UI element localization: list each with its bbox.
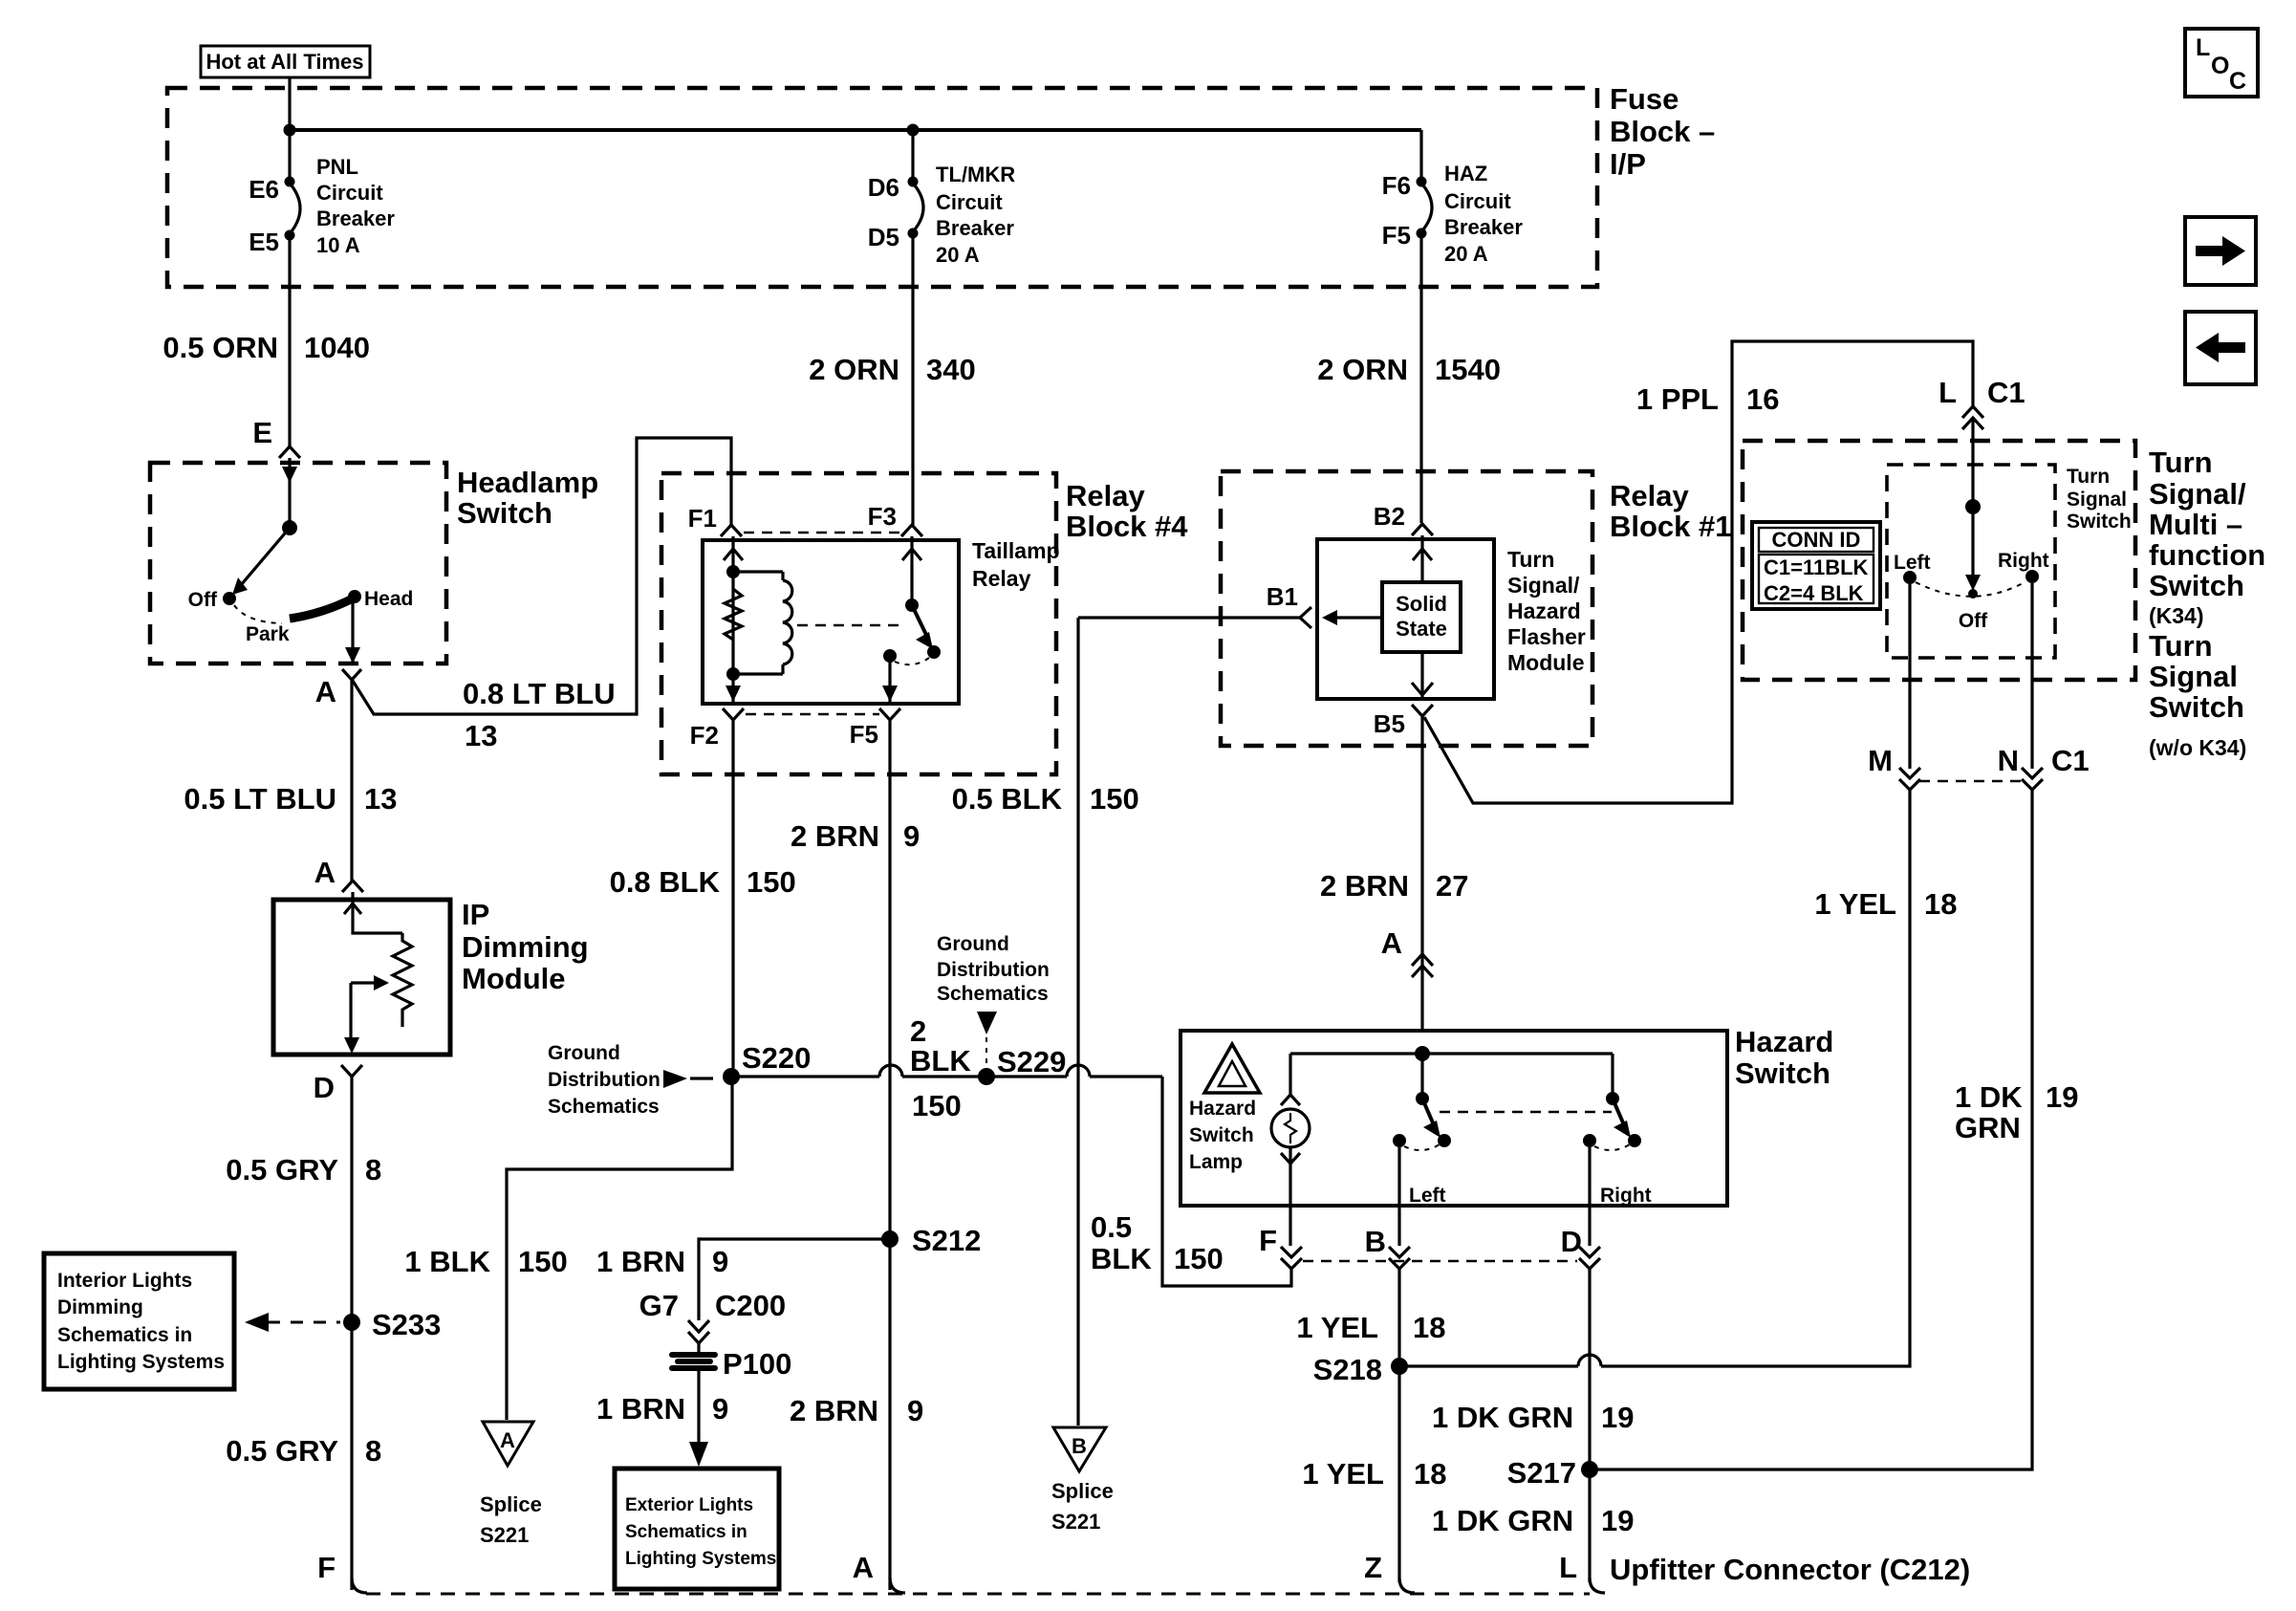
svg-text:(w/o K34): (w/o K34) bbox=[2149, 735, 2246, 760]
svg-text:A: A bbox=[314, 856, 336, 889]
svg-text:Multi –: Multi – bbox=[2149, 508, 2242, 541]
svg-text:9: 9 bbox=[907, 1394, 923, 1427]
svg-text:B1: B1 bbox=[1267, 582, 1298, 611]
svg-text:Turn: Turn bbox=[2149, 629, 2213, 663]
svg-text:B5: B5 bbox=[1374, 709, 1405, 738]
svg-text:PNL: PNL bbox=[316, 155, 358, 179]
svg-text:Flasher: Flasher bbox=[1507, 624, 1586, 649]
svg-text:Schematics in: Schematics in bbox=[625, 1522, 747, 1542]
svg-text:Headlamp: Headlamp bbox=[457, 466, 598, 499]
svg-text:Block –: Block – bbox=[1610, 115, 1715, 148]
svg-text:Taillamp: Taillamp bbox=[972, 538, 1060, 563]
svg-text:Head: Head bbox=[364, 588, 413, 610]
svg-text:0.5: 0.5 bbox=[1091, 1210, 1132, 1244]
svg-text:Signal/: Signal/ bbox=[2149, 477, 2246, 511]
svg-text:F2: F2 bbox=[690, 721, 719, 750]
svg-text:Hot at All Times: Hot at All Times bbox=[206, 50, 363, 74]
svg-text:G7: G7 bbox=[639, 1289, 679, 1322]
svg-text:Distribution: Distribution bbox=[937, 959, 1050, 981]
svg-text:1 YEL: 1 YEL bbox=[1302, 1457, 1384, 1491]
svg-text:C1: C1 bbox=[1987, 376, 2025, 409]
svg-text:Lamp: Lamp bbox=[1189, 1151, 1243, 1173]
svg-text:Fuse: Fuse bbox=[1610, 82, 1679, 116]
svg-text:1 YEL: 1 YEL bbox=[1296, 1311, 1378, 1344]
svg-text:Hazard: Hazard bbox=[1735, 1025, 1833, 1058]
svg-text:TL/MKR: TL/MKR bbox=[936, 163, 1015, 186]
svg-text:F5: F5 bbox=[850, 720, 878, 749]
svg-text:I/P: I/P bbox=[1610, 147, 1646, 181]
svg-text:E: E bbox=[252, 416, 272, 449]
svg-text:Lighting Systems: Lighting Systems bbox=[625, 1549, 776, 1569]
svg-text:Breaker: Breaker bbox=[936, 216, 1014, 240]
svg-text:State: State bbox=[1396, 617, 1447, 641]
svg-text:1 YEL: 1 YEL bbox=[1814, 887, 1896, 921]
svg-text:Distribution: Distribution bbox=[548, 1069, 661, 1091]
svg-text:S233: S233 bbox=[372, 1308, 441, 1341]
svg-text:Circuit: Circuit bbox=[1444, 189, 1511, 213]
svg-text:Switch: Switch bbox=[2067, 511, 2132, 533]
svg-text:16: 16 bbox=[1746, 382, 1779, 416]
svg-text:Signal: Signal bbox=[2149, 660, 2238, 693]
svg-text:1 BRN: 1 BRN bbox=[596, 1245, 685, 1278]
svg-text:20 A: 20 A bbox=[1444, 242, 1488, 266]
svg-text:F: F bbox=[1259, 1224, 1277, 1257]
svg-text:1 PPL: 1 PPL bbox=[1636, 382, 1719, 416]
svg-text:D5: D5 bbox=[868, 223, 899, 251]
svg-text:Exterior Lights: Exterior Lights bbox=[625, 1495, 753, 1515]
svg-text:Z: Z bbox=[1364, 1551, 1382, 1584]
svg-text:F5: F5 bbox=[1382, 221, 1411, 250]
svg-text:8: 8 bbox=[365, 1153, 381, 1186]
svg-text:F6: F6 bbox=[1382, 171, 1411, 200]
svg-text:0.5 GRY: 0.5 GRY bbox=[226, 1434, 338, 1468]
svg-text:Interior Lights: Interior Lights bbox=[57, 1270, 192, 1292]
svg-text:Signal: Signal bbox=[2067, 489, 2127, 511]
svg-text:Block #4: Block #4 bbox=[1066, 510, 1188, 543]
svg-text:1 DK GRN: 1 DK GRN bbox=[1432, 1504, 1573, 1537]
svg-text:Turn: Turn bbox=[1507, 547, 1554, 572]
svg-text:Breaker: Breaker bbox=[1444, 215, 1523, 239]
svg-text:IP: IP bbox=[462, 898, 489, 931]
svg-text:27: 27 bbox=[1436, 869, 1468, 903]
svg-text:BLK: BLK bbox=[910, 1044, 971, 1078]
svg-text:Circuit: Circuit bbox=[936, 190, 1003, 214]
svg-text:function: function bbox=[2149, 538, 2265, 572]
svg-text:150: 150 bbox=[518, 1245, 568, 1278]
svg-text:D: D bbox=[314, 1071, 335, 1104]
svg-text:Hazard: Hazard bbox=[1189, 1098, 1256, 1120]
svg-text:F3: F3 bbox=[868, 502, 897, 531]
svg-text:L: L bbox=[1559, 1551, 1577, 1584]
svg-text:E6: E6 bbox=[249, 175, 279, 204]
svg-text:2: 2 bbox=[910, 1014, 926, 1048]
svg-text:D6: D6 bbox=[868, 173, 899, 202]
svg-text:Circuit: Circuit bbox=[316, 181, 383, 205]
svg-text:2 BRN: 2 BRN bbox=[1320, 869, 1409, 903]
svg-text:150: 150 bbox=[1174, 1242, 1224, 1275]
svg-text:C1: C1 bbox=[2051, 744, 2090, 777]
svg-text:M: M bbox=[1868, 744, 1893, 777]
svg-text:S217: S217 bbox=[1507, 1456, 1576, 1490]
svg-text:S212: S212 bbox=[912, 1224, 981, 1257]
svg-text:150: 150 bbox=[747, 865, 796, 899]
svg-text:C200: C200 bbox=[715, 1289, 786, 1322]
svg-text:1 DK: 1 DK bbox=[1955, 1080, 2023, 1114]
svg-text:F1: F1 bbox=[688, 504, 717, 533]
svg-text:S220: S220 bbox=[742, 1041, 811, 1075]
svg-text:A: A bbox=[500, 1428, 515, 1452]
svg-text:Relay: Relay bbox=[1066, 479, 1145, 512]
svg-text:19: 19 bbox=[2046, 1080, 2078, 1114]
svg-text:Upfitter Connector (C212): Upfitter Connector (C212) bbox=[1610, 1553, 1970, 1586]
svg-text:19: 19 bbox=[1601, 1504, 1634, 1537]
svg-text:A: A bbox=[1381, 926, 1402, 960]
svg-text:CONN ID: CONN ID bbox=[1772, 528, 1861, 552]
svg-text:B: B bbox=[1072, 1434, 1087, 1458]
svg-text:Hazard: Hazard bbox=[1507, 599, 1581, 623]
svg-text:Signal/: Signal/ bbox=[1507, 573, 1580, 598]
svg-text:2 BRN: 2 BRN bbox=[790, 1394, 878, 1427]
svg-text:Module: Module bbox=[1507, 650, 1585, 675]
svg-text:L: L bbox=[1939, 376, 1957, 409]
svg-text:C2=4 BLK: C2=4 BLK bbox=[1764, 581, 1864, 605]
svg-text:Right: Right bbox=[1600, 1185, 1652, 1207]
svg-text:1 BLK: 1 BLK bbox=[404, 1245, 490, 1278]
svg-text:13: 13 bbox=[364, 782, 397, 816]
svg-text:E5: E5 bbox=[249, 228, 279, 256]
svg-text:0.8 BLK: 0.8 BLK bbox=[610, 865, 721, 899]
svg-text:A: A bbox=[315, 675, 336, 708]
svg-text:Left: Left bbox=[1409, 1185, 1446, 1207]
svg-text:L: L bbox=[2196, 34, 2210, 61]
svg-text:19: 19 bbox=[1601, 1401, 1634, 1434]
svg-text:1040: 1040 bbox=[304, 331, 370, 364]
svg-text:Block #1: Block #1 bbox=[1610, 510, 1732, 543]
svg-text:1540: 1540 bbox=[1435, 353, 1501, 386]
svg-text:Splice: Splice bbox=[480, 1492, 542, 1516]
svg-text:2 BRN: 2 BRN bbox=[791, 819, 879, 853]
svg-text:Turn: Turn bbox=[2149, 446, 2213, 479]
svg-text:Turn: Turn bbox=[2067, 466, 2110, 488]
svg-text:2 ORN: 2 ORN bbox=[1317, 353, 1408, 386]
svg-text:Off: Off bbox=[1959, 610, 1988, 632]
svg-text:Lighting Systems: Lighting Systems bbox=[57, 1351, 225, 1373]
svg-text:150: 150 bbox=[1090, 782, 1139, 816]
svg-text:GRN: GRN bbox=[1955, 1111, 2021, 1144]
svg-text:2 ORN: 2 ORN bbox=[809, 353, 899, 386]
svg-text:Switch: Switch bbox=[2149, 690, 2244, 724]
svg-text:S221: S221 bbox=[1051, 1510, 1100, 1534]
svg-text:18: 18 bbox=[1413, 1311, 1445, 1344]
svg-text:0.8 LT BLU: 0.8 LT BLU bbox=[463, 677, 616, 710]
svg-text:Switch: Switch bbox=[457, 496, 552, 530]
svg-text:1 DK GRN: 1 DK GRN bbox=[1432, 1401, 1573, 1434]
svg-text:Solid: Solid bbox=[1396, 592, 1447, 616]
svg-text:Off: Off bbox=[188, 589, 218, 611]
svg-text:Module: Module bbox=[462, 962, 566, 995]
svg-text:Dimming: Dimming bbox=[462, 930, 589, 964]
svg-text:Relay: Relay bbox=[1610, 479, 1689, 512]
svg-text:S229: S229 bbox=[997, 1045, 1066, 1078]
svg-text:150: 150 bbox=[912, 1089, 962, 1122]
svg-text:Schematics: Schematics bbox=[548, 1096, 660, 1118]
svg-text:D: D bbox=[1561, 1225, 1582, 1258]
svg-text:0.5 ORN: 0.5 ORN bbox=[162, 331, 278, 364]
svg-text:18: 18 bbox=[1924, 887, 1957, 921]
svg-text:Ground: Ground bbox=[937, 933, 1009, 955]
svg-text:Dimming: Dimming bbox=[57, 1296, 143, 1318]
svg-text:9: 9 bbox=[903, 819, 920, 853]
svg-text:BLK: BLK bbox=[1091, 1242, 1152, 1275]
svg-text:N: N bbox=[1998, 744, 2019, 777]
svg-text:Left: Left bbox=[1894, 552, 1931, 574]
svg-text:Right: Right bbox=[1998, 550, 2049, 572]
svg-text:18: 18 bbox=[1414, 1457, 1446, 1491]
svg-text:20 A: 20 A bbox=[936, 243, 980, 267]
svg-text:Schematics in: Schematics in bbox=[57, 1324, 192, 1346]
svg-text:Ground: Ground bbox=[548, 1042, 620, 1064]
svg-text:0.5 BLK: 0.5 BLK bbox=[952, 782, 1063, 816]
svg-text:9: 9 bbox=[712, 1392, 728, 1426]
svg-text:S218: S218 bbox=[1313, 1353, 1382, 1386]
svg-text:10 A: 10 A bbox=[316, 233, 360, 257]
svg-text:B2: B2 bbox=[1374, 502, 1405, 531]
svg-text:8: 8 bbox=[365, 1434, 381, 1468]
svg-text:O: O bbox=[2211, 53, 2229, 79]
svg-text:P100: P100 bbox=[723, 1347, 791, 1381]
svg-text:F: F bbox=[317, 1551, 336, 1584]
svg-text:Splice: Splice bbox=[1051, 1479, 1114, 1503]
svg-text:S221: S221 bbox=[480, 1523, 529, 1547]
svg-text:Breaker: Breaker bbox=[316, 207, 395, 230]
svg-text:0.5 LT BLU: 0.5 LT BLU bbox=[184, 782, 336, 816]
svg-text:Switch: Switch bbox=[1189, 1124, 1254, 1146]
svg-text:Relay: Relay bbox=[972, 566, 1031, 591]
svg-text:A: A bbox=[853, 1551, 874, 1584]
svg-text:9: 9 bbox=[712, 1245, 728, 1278]
svg-text:Schematics: Schematics bbox=[937, 983, 1049, 1005]
svg-text:13: 13 bbox=[465, 719, 497, 752]
svg-text:Park: Park bbox=[246, 623, 290, 645]
svg-text:Switch: Switch bbox=[2149, 569, 2244, 602]
svg-text:HAZ: HAZ bbox=[1444, 162, 1487, 185]
svg-text:C: C bbox=[2229, 68, 2246, 95]
svg-text:1 BRN: 1 BRN bbox=[596, 1392, 685, 1426]
svg-text:Switch: Switch bbox=[1735, 1056, 1830, 1090]
svg-text:C1=11BLK: C1=11BLK bbox=[1764, 555, 1869, 579]
svg-text:0.5 GRY: 0.5 GRY bbox=[226, 1153, 338, 1186]
svg-text:B: B bbox=[1365, 1225, 1386, 1258]
svg-text:(K34): (K34) bbox=[2149, 603, 2204, 628]
svg-text:340: 340 bbox=[926, 353, 976, 386]
